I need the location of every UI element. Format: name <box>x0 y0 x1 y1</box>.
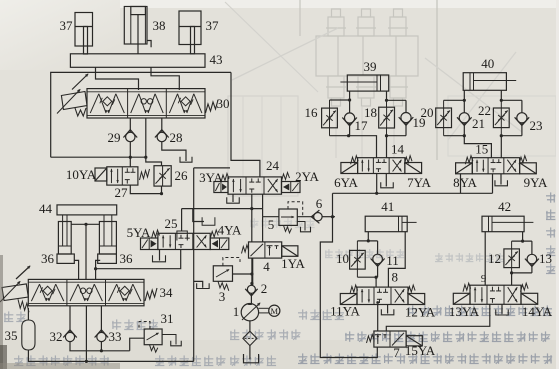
solenoid valve 8 group <box>340 285 424 304</box>
wire valve30 to check 28 <box>161 118 163 132</box>
wire valve30 mid down <box>145 118 147 157</box>
svg-text:1: 1 <box>233 304 240 319</box>
svg-text:15: 15 <box>475 142 488 157</box>
wire rail to tank 25r <box>193 209 204 222</box>
svg-text:26: 26 <box>175 168 189 183</box>
wire valve24 B down <box>262 194 264 208</box>
wire branch to valve9 group <box>386 304 490 331</box>
cylinder 37 left <box>75 13 93 55</box>
svg-text:5YA: 5YA <box>127 225 151 240</box>
solenoid valve 7 <box>367 331 423 347</box>
svg-text:7YA: 7YA <box>407 175 431 190</box>
svg-text:12: 12 <box>488 251 501 266</box>
check valve 21 <box>457 100 472 135</box>
svg-text:4: 4 <box>263 259 270 274</box>
wire valve9 T <box>501 304 503 314</box>
junction pump line b <box>250 282 253 285</box>
junction 42R <box>521 240 524 243</box>
wire check2 pump <box>250 293 252 303</box>
svg-text:9: 9 <box>481 274 486 285</box>
svg-text:34: 34 <box>160 285 174 300</box>
check valve 32 <box>63 330 77 342</box>
solenoid valve 15 <box>456 156 537 174</box>
wire rail to valve 25 P <box>181 209 183 231</box>
svg-text:14: 14 <box>391 142 405 157</box>
wire valve7 through <box>376 347 378 357</box>
svg-text:39: 39 <box>364 59 377 74</box>
wire valve25 to cyl36 <box>96 250 181 269</box>
svg-text:37: 37 <box>206 18 220 33</box>
label 12YA <box>405 305 436 320</box>
svg-text:15YA: 15YA <box>405 343 436 358</box>
label 27 <box>115 185 129 200</box>
tank drain valve14 <box>381 182 394 188</box>
label 36 right <box>120 251 134 266</box>
svg-text:M: M <box>271 306 279 316</box>
label 17 <box>355 118 369 133</box>
label 11YA <box>330 304 360 319</box>
feedback arrow valve 34 <box>16 266 31 280</box>
junction head link <box>84 223 87 226</box>
svg-text:25: 25 <box>165 216 178 231</box>
wire check6 to node <box>322 216 335 218</box>
label 36 left <box>41 251 55 266</box>
svg-text:2: 2 <box>261 281 268 296</box>
label 8 <box>392 270 399 285</box>
label 5 <box>268 217 275 232</box>
svg-text:8: 8 <box>392 270 399 285</box>
solenoid valve 24 <box>214 173 300 195</box>
rail 22 top <box>501 99 522 101</box>
check valve 2 <box>245 285 257 296</box>
tank drain valve 24 <box>227 197 240 203</box>
label 33 <box>109 329 122 344</box>
solenoid valve 4 <box>242 242 298 258</box>
svg-text:11: 11 <box>386 253 399 268</box>
wire valve3 feed <box>233 273 252 275</box>
proportional valve 30 <box>57 89 218 118</box>
label 18 <box>364 105 377 120</box>
svg-text:2YA: 2YA <box>295 169 319 184</box>
label 11 <box>386 253 399 268</box>
label 43 <box>210 52 223 67</box>
label 14 <box>391 142 405 157</box>
svg-text:6: 6 <box>316 196 323 211</box>
wire rod left to valve34 <box>74 260 78 279</box>
valve31 pilot dashed <box>139 322 150 330</box>
filter <box>243 331 257 345</box>
wire 16 to valve14 <box>350 136 377 158</box>
svg-text:43: 43 <box>210 52 223 67</box>
wire valve5 feed <box>263 216 279 218</box>
svg-text:27: 27 <box>115 185 129 200</box>
wire valve5 out <box>297 216 314 218</box>
junction valve8 P <box>376 301 379 304</box>
valve5 drain <box>297 222 310 232</box>
svg-text:13: 13 <box>539 251 552 266</box>
throttle valve 12 <box>504 241 520 273</box>
tank drain valve9 <box>496 310 509 316</box>
label 31 <box>161 311 174 326</box>
platen 44 <box>57 205 117 215</box>
wire valve14 P <box>376 174 378 194</box>
pump 1 <box>241 303 260 321</box>
rail 16 top <box>330 99 350 101</box>
svg-text:41: 41 <box>381 199 394 214</box>
wire check29 to rail <box>129 142 131 157</box>
label 6 <box>316 196 323 211</box>
label 23 <box>530 118 543 133</box>
wire valve15 T <box>500 174 502 185</box>
svg-text:8YA: 8YA <box>453 175 477 190</box>
cylinder 40 <box>463 73 516 91</box>
rail 18 top <box>387 99 407 101</box>
cylinder 37 right <box>179 11 201 54</box>
cylinder 39 <box>340 75 388 91</box>
wire valve14 T <box>385 174 387 187</box>
svg-text:37: 37 <box>60 18 74 33</box>
rail 208 <box>182 208 263 210</box>
label 4 <box>263 259 270 274</box>
wire rail to valve 27 <box>129 157 131 167</box>
relief valve 3 <box>213 266 232 291</box>
label 34 <box>160 285 174 300</box>
wire pump to filter <box>249 321 251 332</box>
wire valve25 drain <box>159 250 161 261</box>
wire node up to rail <box>332 193 334 216</box>
wire rod right to valve34 <box>96 260 101 279</box>
motor M <box>259 305 280 316</box>
wire accumulator top <box>27 308 29 320</box>
wire 42 right port <box>522 232 524 241</box>
wire valve34 to check32 <box>69 306 71 332</box>
wire to valve31 <box>130 338 145 351</box>
label 4YA <box>218 223 242 238</box>
valve3 pilot dashed <box>223 258 240 266</box>
svg-text:33: 33 <box>109 329 122 344</box>
svg-text:5: 5 <box>268 217 275 232</box>
junction 18B <box>385 134 388 137</box>
cylinder 38 middle <box>124 7 151 54</box>
wire check32 down <box>70 342 130 351</box>
wire valve8 P <box>377 305 379 332</box>
svg-text:31: 31 <box>161 311 174 326</box>
junction 22B <box>500 134 503 137</box>
wire valve30 to check 29 <box>129 118 131 132</box>
label 13YA <box>449 304 480 319</box>
node junction <box>331 215 334 218</box>
svg-text:12YA: 12YA <box>405 305 436 320</box>
check valve 19 <box>399 100 414 135</box>
throttle valve 10 <box>350 241 366 277</box>
label 24 <box>266 158 280 173</box>
label 35 <box>5 328 18 343</box>
svg-text:6YA: 6YA <box>334 175 358 190</box>
label 5YA <box>127 225 151 240</box>
platen 43 <box>70 54 205 68</box>
wire plate port B <box>151 67 179 90</box>
check valve 11 <box>371 241 385 277</box>
wire valve24 to valve4 <box>251 209 253 242</box>
wire 41 right port <box>388 232 405 287</box>
label 20 <box>421 105 434 120</box>
wire 20 to valve15 <box>464 136 491 158</box>
throttle valve 22 <box>493 100 509 135</box>
label 15YA <box>405 343 436 358</box>
junction 10B <box>375 276 378 279</box>
svg-text:44: 44 <box>39 201 53 216</box>
label 19 <box>413 115 426 130</box>
label 10 <box>336 251 349 266</box>
label 7YA <box>407 175 431 190</box>
junction 20B <box>463 134 466 137</box>
rail 18 bottom <box>387 135 407 137</box>
check valve 23 <box>515 100 530 135</box>
label 2 <box>261 281 268 296</box>
tank drain right of 25 <box>202 217 215 225</box>
svg-text:1YA: 1YA <box>281 256 305 271</box>
wire valve8 T <box>387 305 389 314</box>
svg-text:38: 38 <box>153 18 166 33</box>
tank drain valve15 <box>495 180 508 186</box>
label 14YA <box>522 304 553 319</box>
tank main <box>244 354 259 363</box>
label 7 <box>393 345 400 360</box>
wire node down <box>320 217 377 358</box>
label 42 <box>498 199 511 214</box>
svg-text:7: 7 <box>393 345 400 360</box>
tank drain top middle <box>180 157 192 162</box>
cylinder 42 <box>482 216 533 232</box>
label 12 <box>488 251 501 266</box>
tank drain valve8 <box>381 309 394 315</box>
junction 12B <box>510 271 513 274</box>
wire rail to valve 26 <box>146 157 162 166</box>
solenoid valve 14 <box>341 156 422 174</box>
junction 39R <box>385 99 388 102</box>
label 3YA <box>199 170 223 185</box>
label 16 <box>305 105 319 120</box>
label 9 <box>481 274 486 285</box>
junction 39L <box>348 98 351 101</box>
label 28 <box>170 130 183 145</box>
throttle valve 18 <box>379 100 395 135</box>
label 30 <box>217 96 230 111</box>
valve 25 P jog <box>177 231 187 241</box>
label 13 <box>539 251 552 266</box>
label 26 <box>175 168 189 183</box>
svg-text:40: 40 <box>481 56 494 71</box>
wire cyl36 head link <box>71 223 99 225</box>
junction 25-36 <box>94 267 97 270</box>
svg-text:22: 22 <box>478 103 491 118</box>
check valve 29 <box>123 130 137 142</box>
wire valve4 top right to valve5 <box>262 217 264 242</box>
junction rail P14 <box>375 192 378 195</box>
svg-text:11YA: 11YA <box>330 304 360 319</box>
wire 10 to valve8 <box>375 277 377 287</box>
junction 26 bottom <box>160 192 163 195</box>
tank drain valve 25 <box>153 255 166 261</box>
wire frame top <box>51 72 231 157</box>
label 29 <box>108 130 121 145</box>
wire filter to tank <box>249 346 251 360</box>
check valve 28 <box>155 130 169 142</box>
check valve 17 <box>342 100 357 136</box>
label 22 <box>478 103 491 118</box>
junction mid-rail <box>144 156 147 159</box>
label 10YA <box>66 167 97 182</box>
junction 29-rail <box>129 156 132 159</box>
svg-text:21: 21 <box>472 116 485 131</box>
svg-text:29: 29 <box>108 130 121 145</box>
svg-text:32: 32 <box>50 329 63 344</box>
pressure rail <box>333 192 493 194</box>
wire valve15 U <box>460 174 462 194</box>
wire valve34 center down <box>85 306 87 362</box>
wire plate port A <box>96 67 139 90</box>
rail 10 bottom <box>357 276 377 278</box>
svg-text:3: 3 <box>219 289 226 304</box>
svg-text:35: 35 <box>5 328 18 343</box>
solenoid valve 25 <box>141 230 229 250</box>
wire head to valve34 <box>85 224 87 279</box>
junction 16B <box>347 134 350 137</box>
wire pump line <box>251 258 253 285</box>
throttle valve 26 <box>154 166 171 186</box>
junction rail208 <box>250 207 253 210</box>
svg-text:18: 18 <box>364 105 377 120</box>
cylinder 41 <box>365 216 416 232</box>
svg-text:36: 36 <box>120 251 134 266</box>
svg-text:13YA: 13YA <box>449 304 480 319</box>
svg-text:23: 23 <box>530 118 543 133</box>
label 25 <box>165 216 178 231</box>
wire 22 to valve15 <box>500 136 502 158</box>
junction bottom rail <box>85 360 88 363</box>
cylinder 36 left <box>57 215 74 264</box>
svg-text:9YA: 9YA <box>524 175 548 190</box>
rail 12 bottom <box>512 272 532 274</box>
wire 42 left port <box>484 232 486 286</box>
check valve 13 <box>525 241 539 273</box>
solenoid valve 9 group <box>453 283 537 304</box>
wire 18 to valve14 <box>386 136 388 158</box>
wire valve24 drain <box>232 194 234 202</box>
wire return top to valve24 <box>194 167 230 169</box>
rail 16 bottom <box>330 135 350 137</box>
throttle valve 16 <box>322 100 338 136</box>
label 1YA <box>281 256 305 271</box>
label 3 <box>219 289 226 304</box>
svg-text:36: 36 <box>41 251 55 266</box>
wire valve24 A down <box>251 194 253 208</box>
label 40 <box>481 56 494 71</box>
wire 39 left port <box>349 91 351 100</box>
solenoid valve 27 <box>95 167 150 185</box>
svg-text:16: 16 <box>305 105 319 120</box>
label 38 <box>153 18 166 33</box>
wire valve15 P <box>492 174 494 194</box>
wire valve34 to check33 <box>100 306 102 332</box>
wire B to valve5 line <box>262 209 264 217</box>
label 37 left <box>60 18 74 33</box>
label 37 right <box>206 18 220 33</box>
label 6YA <box>334 175 358 190</box>
label 15 <box>475 142 488 157</box>
wire check33 down <box>100 342 102 351</box>
cylinder 36 right <box>98 215 117 264</box>
junction pump line a <box>250 272 253 275</box>
label 32 <box>50 329 63 344</box>
rail 20 bottom <box>444 135 465 137</box>
label 8YA <box>453 175 477 190</box>
rail 20 top <box>444 99 465 101</box>
wire 12 to valve9 <box>511 273 513 285</box>
rail under valve 30 <box>51 156 146 158</box>
label 9YA <box>524 175 548 190</box>
check valve 33 <box>95 330 109 342</box>
wire return line left <box>193 168 195 362</box>
label 1 <box>233 304 240 319</box>
wire 27-26 bottom <box>130 185 161 194</box>
sequence valve 31 <box>144 329 162 352</box>
junction 40L <box>463 99 466 102</box>
rail 10 top <box>357 240 377 242</box>
wire 40 left port <box>463 90 465 100</box>
label 21 <box>472 116 485 131</box>
check valve 6 <box>311 210 322 223</box>
drain cup on return line <box>194 281 209 288</box>
junction 33 rail <box>100 349 103 352</box>
wire check28 to drain <box>162 142 186 161</box>
valve31 drain <box>162 335 181 346</box>
svg-text:20: 20 <box>421 105 434 120</box>
svg-text:24: 24 <box>266 158 280 173</box>
feedback arrow valve 30 <box>72 74 89 90</box>
wire 40 right port <box>500 90 502 100</box>
svg-text:10YA: 10YA <box>66 167 97 182</box>
label 44 <box>39 201 53 216</box>
proportional valve 34 <box>0 279 157 312</box>
throttle valve 20 <box>436 100 452 135</box>
svg-text:10: 10 <box>336 251 349 266</box>
wire 41 left port <box>367 232 369 241</box>
label 41 <box>381 199 394 214</box>
junction 40R <box>500 99 503 102</box>
svg-text:4YA: 4YA <box>218 223 242 238</box>
rail 12 top <box>512 240 532 242</box>
wire valve4 bottom <box>252 258 254 285</box>
junction 41L <box>367 239 370 242</box>
wire to valve 24 from top <box>231 72 260 176</box>
bottom rail <box>86 360 193 362</box>
sequence valve 5 <box>279 209 297 233</box>
wire 39 right port <box>386 91 388 100</box>
valve5 pilot dashed <box>288 202 303 217</box>
svg-text:30: 30 <box>217 96 230 111</box>
svg-text:3YA: 3YA <box>199 170 223 185</box>
svg-text:17: 17 <box>355 118 369 133</box>
wire accumulator bottom <box>28 350 86 361</box>
rail 22 bottom <box>501 135 522 137</box>
label 2YA <box>295 169 319 184</box>
svg-text:14YA: 14YA <box>522 304 553 319</box>
svg-text:42: 42 <box>498 199 511 214</box>
label 39 <box>364 59 377 74</box>
accumulator 35 <box>22 320 35 350</box>
svg-text:28: 28 <box>170 130 183 145</box>
